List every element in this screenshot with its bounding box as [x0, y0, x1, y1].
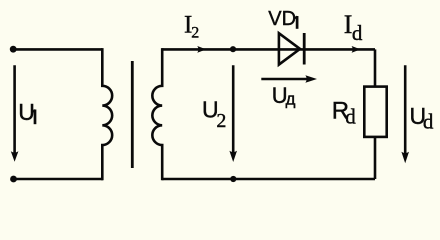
svg-text:2: 2 [191, 24, 199, 41]
svg-text:d: d [352, 21, 363, 45]
voltage arrow U2 [229, 65, 237, 162]
node B: junction at bottom of U2 arrow [230, 176, 236, 182]
voltage arrow U_d (diode voltage, Cyrillic subscript) [261, 75, 317, 82]
svg-text:d: d [345, 105, 356, 129]
wire: primary top (input top terminal to primary winding) [13, 48, 102, 51]
wire: resistor to bottom rail [374, 137, 377, 179]
node A: junction at top of U2 arrow [230, 46, 236, 52]
wire: secondary top rail (winding to diode and load corner, through node A) [162, 48, 375, 51]
resistor Rd [364, 87, 386, 137]
svg-text:д: д [286, 89, 296, 108]
wire: primary bottom (input bottom terminal to primary winding) [14, 178, 104, 181]
voltage arrow U1 [11, 65, 19, 162]
voltage arrow Ud (output) [401, 65, 409, 163]
current arrow I2 [197, 46, 206, 53]
wire: secondary bottom rail [162, 178, 375, 181]
transformer T primary winding [102, 48, 112, 180]
svg-text:U: U [18, 99, 35, 125]
node: input terminal top [10, 46, 17, 53]
node: input terminal bottom [10, 176, 17, 183]
svg-text:2: 2 [216, 110, 226, 132]
wire: right vertical drop to resistor [374, 49, 377, 87]
svg-text:VD: VD [268, 8, 296, 30]
transformer core [131, 61, 134, 168]
svg-text:d: d [423, 110, 434, 134]
diode VD1 [279, 33, 304, 65]
current arrow Id [352, 46, 361, 53]
transformer T secondary winding [152, 48, 162, 180]
